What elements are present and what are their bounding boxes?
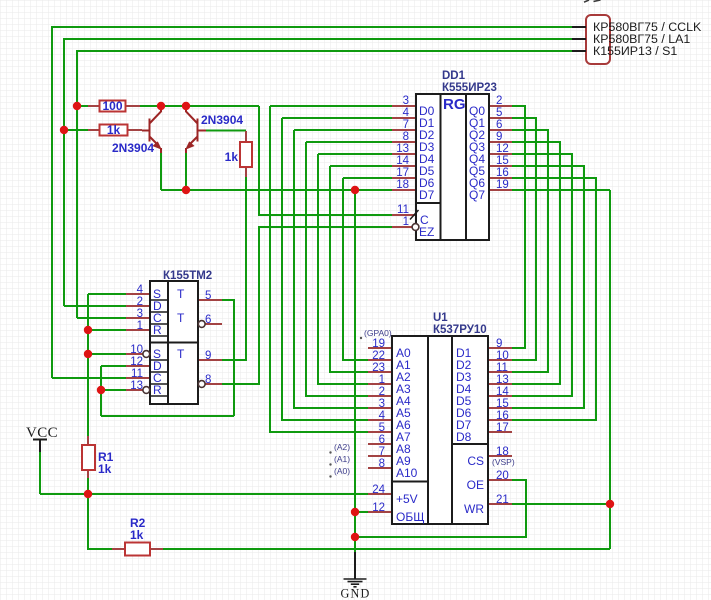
svg-text:OE: OE <box>467 478 484 492</box>
node 1k-resistor / LA1 rail <box>60 126 68 134</box>
U1 right pin stubs <box>488 348 512 504</box>
R1 leads <box>87 436 89 478</box>
DD1 EZ inversion bubble pin 1 <box>412 224 419 231</box>
svg-text:13: 13 <box>130 380 143 392</box>
node D7 / ground vertical <box>351 186 359 194</box>
svg-text:2: 2 <box>137 296 143 308</box>
svg-text:1: 1 <box>403 216 409 228</box>
TM2 right pin stubs <box>198 300 222 384</box>
node 100-resistor / S1 rail <box>73 102 81 110</box>
DD1 left pin names <box>419 104 435 239</box>
wire D5 row y166 <box>330 165 392 167</box>
TM2 bubble pin 8 <box>198 381 205 388</box>
wire D0 vertical x270 to A7 <box>270 106 368 432</box>
transistor Q2 2N3904 (mirrored) <box>185 106 206 153</box>
resistor R1 <box>82 445 114 476</box>
U1 left pin numbers <box>372 338 385 514</box>
svg-text:22: 22 <box>372 350 385 362</box>
svg-text:3: 3 <box>379 398 385 410</box>
wire OBSHCH pin row <box>355 511 368 513</box>
net label (GPA0) <box>360 328 392 339</box>
svg-text:1k: 1k <box>98 462 112 476</box>
svg-text:A10: A10 <box>396 466 418 480</box>
svg-text:11: 11 <box>131 368 143 380</box>
svg-text:Q7: Q7 <box>469 188 485 202</box>
wire D1 vertical x282 to A6 <box>282 118 368 420</box>
wire ground vertical x355 from D7 row <box>354 190 356 552</box>
svg-text:1k: 1k <box>130 528 144 542</box>
wire TM2 pin11 <box>52 377 126 379</box>
TM2 right pin numbers <box>205 290 211 386</box>
wire TM2 pin4 <box>88 293 126 295</box>
svg-text:U1: U1 <box>433 312 448 324</box>
wire TM2 pin12 <box>101 365 126 367</box>
node OE loop / ground <box>351 533 359 541</box>
svg-text:2N3904: 2N3904 <box>112 141 154 155</box>
svg-text:1: 1 <box>379 374 385 386</box>
TM2 section labels <box>153 287 185 397</box>
wire 100-resistor row y106 <box>77 105 161 107</box>
wire D4 vertical x318 to A3 <box>318 154 368 384</box>
wire R1 pullup vertical x88 <box>87 294 89 436</box>
wire D3 vertical x306 to A4 <box>306 142 368 396</box>
TM2 bubble pin 13 <box>143 387 150 394</box>
svg-text:+5V: +5V <box>396 492 418 506</box>
svg-text:16: 16 <box>496 410 509 422</box>
DD1 clock mark pin 11 <box>410 210 419 220</box>
wire rail LA1 y39 <box>64 38 572 40</box>
svg-text:1k: 1k <box>225 150 239 164</box>
wire emitter line y190 to DD1 D7 <box>161 189 392 191</box>
svg-text:20: 20 <box>496 470 509 482</box>
svg-text:T: T <box>177 347 185 361</box>
svg-text:14: 14 <box>396 155 409 167</box>
svg-text:100: 100 <box>102 99 122 113</box>
svg-text:2: 2 <box>379 386 385 398</box>
resistor R2 <box>125 516 150 556</box>
svg-text:2: 2 <box>496 95 502 107</box>
TM2 left pin stubs <box>126 294 150 390</box>
wire Q3 <box>512 142 560 384</box>
svg-text:24: 24 <box>372 484 385 496</box>
pin stubs (dark red) <box>88 106 512 549</box>
connector X1 top right <box>572 15 702 64</box>
svg-text:11: 11 <box>496 362 508 374</box>
wire TM2 pin3 <box>77 317 126 319</box>
svg-text:19: 19 <box>372 338 385 350</box>
wire D2 vertical x294 to A5 <box>294 130 368 408</box>
wire D2 row y130 <box>294 129 392 131</box>
node WR / Q7 / R2 <box>606 500 614 508</box>
svg-text:9: 9 <box>205 350 211 362</box>
wire Q4 <box>512 154 572 396</box>
svg-text:9: 9 <box>496 131 502 143</box>
wire 1k-resistor row y130 <box>64 129 142 131</box>
wire D3 row y142 <box>306 141 392 143</box>
U1 left pin stubs <box>368 348 392 512</box>
svg-text:21: 21 <box>496 494 509 506</box>
wire Q7 row y190 <box>512 189 610 191</box>
wire Q6 <box>512 178 596 420</box>
wire TM2 pin12 vertical x101 <box>100 366 102 416</box>
wire TM2 pin13 <box>101 389 126 391</box>
node TM2 pin10 / pullup <box>84 350 92 358</box>
node R1 bottom / +5V rail <box>84 490 92 498</box>
svg-text:1: 1 <box>137 320 143 332</box>
svg-text:7: 7 <box>403 119 409 131</box>
svg-text:6: 6 <box>205 314 211 326</box>
resistor 1k (base) <box>100 123 128 137</box>
svg-text:CS: CS <box>467 454 484 468</box>
svg-text:EZ: EZ <box>419 225 434 239</box>
node OBSHCH / ground <box>351 508 359 516</box>
wire Q5 <box>512 166 584 408</box>
svg-text:15: 15 <box>496 155 509 167</box>
svg-text:R: R <box>153 323 162 337</box>
transistor Q1 2N3904 <box>142 106 162 153</box>
wire VCC drop x40 <box>39 452 41 494</box>
svg-text:14: 14 <box>496 386 509 398</box>
svg-text:К155ИР13 / S1: К155ИР13 / S1 <box>593 44 677 58</box>
wire TM2 pin2 <box>64 305 126 307</box>
svg-text:DD1: DD1 <box>442 70 466 82</box>
wire D1 row y118 <box>282 117 392 119</box>
resistor 100 <box>100 99 126 113</box>
wire Q1 <box>512 118 536 360</box>
wire D0 row y106 <box>270 105 392 107</box>
svg-text:(A0): (A0) <box>334 466 350 476</box>
svg-text:13: 13 <box>396 143 409 155</box>
U1 right pin names <box>456 346 484 516</box>
U1 right pin numbers <box>496 338 509 506</box>
DD1 right pin names <box>469 104 485 202</box>
net label (A1) <box>329 454 350 466</box>
svg-text:13: 13 <box>496 374 509 386</box>
svg-text:7: 7 <box>379 446 385 458</box>
svg-text:12: 12 <box>496 143 509 155</box>
svg-text:8: 8 <box>379 458 385 470</box>
wire D6 vertical x343 to A1 <box>343 178 368 360</box>
svg-text:R: R <box>153 383 162 397</box>
node Q2 collector <box>182 102 190 110</box>
svg-text:D8: D8 <box>456 430 472 444</box>
wire Q2 base to vertical 1k resistor <box>206 130 246 132</box>
wire WR row y504 <box>512 503 610 505</box>
wire 1k vertical resistor lead down to TM2 pin9 <box>222 177 246 360</box>
wire +5V rail y494 <box>40 493 368 495</box>
svg-text:3: 3 <box>137 308 143 320</box>
svg-text:6: 6 <box>379 434 385 446</box>
R2 leads <box>112 548 163 550</box>
svg-text:11: 11 <box>397 204 409 216</box>
resistor 100 leads <box>88 105 140 107</box>
wire R1 bottom to +5V rail <box>87 478 89 494</box>
svg-text:5: 5 <box>205 290 211 302</box>
wire vertical x64 rail2 to TM2 pin2 <box>63 38 65 306</box>
svg-text:17: 17 <box>496 422 509 434</box>
wire EZ row to TM2 pin8 x259 <box>222 227 392 384</box>
wire D5 vertical x330 to A2 <box>330 166 368 372</box>
op IC DD2 K155TM2 dual D flip-flop <box>150 270 212 404</box>
svg-text:T: T <box>177 311 185 325</box>
TM2 bubble pin 6 <box>198 321 205 328</box>
DD1 right pin stubs <box>489 106 512 190</box>
svg-text:К555ИР23: К555ИР23 <box>442 82 497 94</box>
wire vertical x77 rail3 to TM2 pin3 <box>76 50 78 318</box>
wire TM2 pin5 to x234 <box>222 300 234 416</box>
svg-text:T: T <box>177 287 185 301</box>
svg-text:12: 12 <box>372 502 385 514</box>
wire collector node y106 to corner x259 <box>161 105 259 107</box>
svg-text:10: 10 <box>496 350 509 362</box>
svg-text:ОБЩ: ОБЩ <box>396 510 424 524</box>
wire TM2 pin1 <box>88 329 126 331</box>
svg-text:К155ТМ2: К155ТМ2 <box>163 270 212 282</box>
resistor 1k leads <box>88 129 142 131</box>
svg-text:5: 5 <box>496 107 502 119</box>
svg-text:4: 4 <box>403 107 410 119</box>
svg-text:(GPA0): (GPA0) <box>364 328 392 338</box>
node TM2 pin1 / pullup <box>84 326 92 334</box>
wire y416 under TM2 <box>101 415 234 417</box>
svg-text:8: 8 <box>205 374 211 386</box>
svg-text:4: 4 <box>379 410 386 422</box>
svg-text:(A1): (A1) <box>334 454 350 464</box>
node Q2 emitter <box>182 186 190 194</box>
svg-text:1k: 1k <box>107 123 121 137</box>
svg-text:8: 8 <box>403 131 409 143</box>
wire Q2 emitter drop x186 <box>185 152 187 190</box>
DD1 left pin numbers <box>396 95 409 228</box>
wire rail CCLK y27 <box>52 26 572 28</box>
svg-text:D7: D7 <box>419 188 435 202</box>
net label (A2) <box>329 442 350 454</box>
svg-text:15: 15 <box>496 398 509 410</box>
svg-text:16: 16 <box>496 167 509 179</box>
op IC DD1 K555IR23 register <box>416 70 497 240</box>
svg-text:9: 9 <box>496 338 502 350</box>
node Q1 collector <box>157 102 165 110</box>
DD1 right pin numbers <box>496 95 509 191</box>
svg-text:6: 6 <box>496 119 502 131</box>
DD1 left pin stubs <box>392 106 416 227</box>
vertical 1k resistor leads <box>245 131 247 177</box>
wire Q0 <box>512 106 525 348</box>
net label (A0) <box>329 466 350 478</box>
svg-text:12: 12 <box>130 356 143 368</box>
wire rail S1 y51 <box>77 50 572 52</box>
U1 left pin names <box>396 346 424 524</box>
node TM2 pin13 <box>97 386 105 394</box>
svg-text:10: 10 <box>130 344 143 356</box>
svg-text:К537РУ10: К537РУ10 <box>433 324 487 336</box>
svg-text:19: 19 <box>496 179 509 191</box>
TM2 bubble pin 10 <box>143 351 150 358</box>
svg-text:18: 18 <box>396 179 409 191</box>
svg-text:5: 5 <box>379 422 385 434</box>
svg-text:(A2): (A2) <box>334 442 350 452</box>
wire collector node down x259 to C <box>259 106 392 215</box>
svg-text:RG: RG <box>443 96 466 113</box>
wire vertical x52 rail1 to TM2 pin11 <box>51 26 53 378</box>
ground symbol GND <box>341 552 371 600</box>
wire TM2 pin10 <box>88 353 126 355</box>
svg-text:VCC: VCC <box>26 425 58 441</box>
wire R2 row y549 <box>88 494 610 549</box>
svg-text:2N3904: 2N3904 <box>201 113 243 127</box>
svg-text:WR: WR <box>464 502 484 516</box>
wire Q2 <box>512 130 548 372</box>
wire D4 row y154 <box>318 153 392 155</box>
VCC symbol <box>26 425 58 452</box>
svg-text:GND: GND <box>341 587 371 600</box>
svg-text:23: 23 <box>372 362 385 374</box>
wire OE loop y537 <box>355 480 526 537</box>
svg-text:3: 3 <box>403 95 409 107</box>
clipped text fragment top edge <box>584 0 601 2</box>
wire Q7 vertical x610 <box>609 190 611 549</box>
wire Q1 emitter drop x161 <box>160 152 162 190</box>
op IC U1 K537RU10 RAM <box>392 312 488 524</box>
wire D6 row y178 <box>343 177 392 179</box>
TM2 left pin numbers <box>130 284 143 392</box>
svg-text:4: 4 <box>137 284 144 296</box>
svg-text:(VSP): (VSP) <box>492 457 515 467</box>
resistor 1k vertical <box>225 142 252 167</box>
svg-text:17: 17 <box>396 167 409 179</box>
